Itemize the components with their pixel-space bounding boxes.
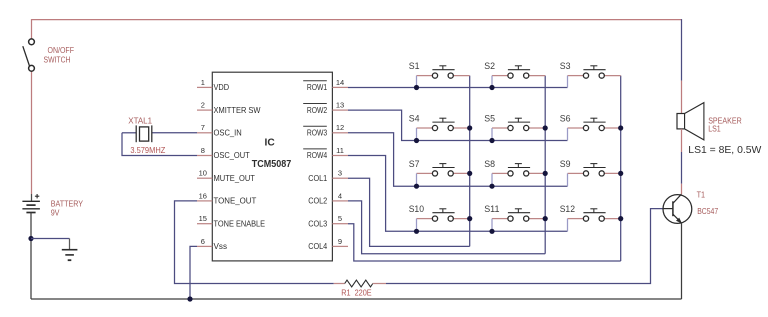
svg-text:S8: S8 [484, 159, 495, 169]
node S2 row junction [489, 85, 494, 90]
pin 15 TONE ENABLE [197, 214, 265, 228]
node S7 row junction [414, 184, 419, 189]
wire supply rail down to speaker [681, 19, 683, 113]
svg-text:S6: S6 [560, 113, 571, 123]
svg-text:8: 8 [201, 146, 205, 155]
svg-text:2: 2 [201, 101, 205, 110]
svg-text:6: 6 [201, 237, 205, 246]
svg-text:15: 15 [199, 214, 207, 223]
switch S4 [409, 113, 470, 140]
wire bottom ground rail [31, 298, 682, 300]
wire top supply rail [32, 19, 682, 21]
node battery/ground tee [28, 236, 33, 241]
svg-text:COL1: COL1 [308, 173, 327, 183]
resistor R1 220E [341, 280, 373, 298]
pin 10 MUTE_OUT [197, 169, 255, 183]
switch S12 [560, 204, 621, 231]
pin 3 COL1 [308, 169, 348, 183]
node S7 column junction [467, 171, 472, 176]
svg-text:TONE_OUT: TONE_OUT [214, 196, 257, 206]
node S8 row junction [489, 184, 494, 189]
svg-text:TONE ENABLE: TONE ENABLE [214, 218, 266, 228]
svg-text:LS1 = 8E, 0.5W: LS1 = 8E, 0.5W [688, 145, 761, 156]
svg-text:BATTERY: BATTERY [51, 200, 84, 209]
node S8 column junction [543, 171, 548, 176]
svg-text:ROW2: ROW2 [307, 105, 328, 115]
wire tee to ground [31, 239, 70, 250]
svg-text:SWITCH: SWITCH [44, 55, 71, 64]
svg-text:XMITTER SW: XMITTER SW [214, 105, 261, 115]
svg-text:16: 16 [199, 191, 207, 200]
svg-text:3.579MHZ: 3.579MHZ [130, 146, 165, 155]
svg-text:TCM5087: TCM5087 [252, 159, 292, 170]
svg-text:3: 3 [338, 169, 342, 178]
pin 13 ROW2 [303, 101, 348, 115]
svg-text:OSC_OUT: OSC_OUT [214, 150, 250, 160]
crystal XTAL1 3.579MHZ [122, 117, 197, 155]
svg-text:S9: S9 [560, 159, 571, 169]
node S6 column junction [618, 125, 623, 130]
pin 4 COL2 [308, 191, 348, 205]
svg-text:ROW1: ROW1 [307, 82, 328, 92]
wire COL3 keypad column vertical [620, 76, 622, 261]
svg-text:BC547: BC547 [697, 207, 718, 216]
svg-text:S3: S3 [560, 61, 571, 71]
IC U1 TCM5087 body [212, 72, 332, 261]
wire net ROW2 [348, 110, 568, 140]
pin 11 ROW4 [303, 146, 348, 160]
svg-text:ROW4: ROW4 [307, 150, 328, 160]
svg-text:IC: IC [265, 136, 276, 148]
svg-text:13: 13 [336, 101, 344, 110]
wire net ROW1 [348, 87, 568, 89]
switch S11 [484, 204, 545, 231]
svg-text:T1: T1 [697, 190, 706, 199]
svg-text:Vss: Vss [214, 241, 228, 251]
svg-text:XTAL1: XTAL1 [128, 117, 152, 126]
ground [62, 250, 78, 261]
node S5 column junction [543, 125, 548, 130]
node S10 column junction [467, 216, 472, 221]
switch S10 [409, 204, 470, 231]
svg-text:S10: S10 [409, 204, 424, 214]
switch S1 [409, 61, 470, 88]
svg-text:S1: S1 [409, 61, 420, 71]
node S10 row junction [414, 229, 419, 234]
svg-text:5: 5 [338, 214, 342, 223]
wire Vss pin6 to ground rail [190, 246, 197, 299]
svg-text:S7: S7 [409, 159, 420, 169]
wire net COL1 return [348, 178, 470, 246]
transistor T1 BC547 [663, 190, 719, 223]
pin 6 Vss [197, 237, 227, 251]
switch S7 [409, 159, 470, 186]
svg-text:R1 220E: R1 220E [341, 289, 372, 298]
switch S5 [484, 113, 545, 140]
node S1 row junction [414, 85, 419, 90]
svg-text:7: 7 [201, 123, 205, 132]
svg-text:9V: 9V [51, 208, 60, 217]
wire emitter to ground rail [681, 223, 683, 299]
svg-text:1: 1 [201, 78, 205, 87]
wire TONE_OUT pin16 down to R1 [175, 201, 345, 284]
node S11 row junction [489, 229, 494, 234]
svg-text:S12: S12 [560, 204, 575, 214]
node S9 column junction [618, 171, 623, 176]
switch ON/OFF SW1 [23, 39, 74, 71]
switch S8 [484, 159, 545, 186]
node S4 column junction [467, 125, 472, 130]
battery BT1 9V [22, 194, 83, 217]
pin 1 VDD [197, 78, 229, 92]
svg-text:S4: S4 [409, 113, 420, 123]
switch S6 [560, 113, 621, 140]
svg-text:4: 4 [338, 191, 342, 200]
wire net ROW3 [348, 133, 568, 186]
node S5 row junction [489, 138, 494, 143]
svg-text:ON/OFF: ON/OFF [48, 46, 75, 55]
svg-text:VDD: VDD [214, 82, 230, 92]
svg-text:MUTE_OUT: MUTE_OUT [214, 173, 255, 183]
wire net COL2 return [348, 201, 545, 254]
wire COL1 keypad column vertical [469, 76, 471, 247]
wire crystal loop to OSC_OUT pin 8 [122, 133, 197, 156]
svg-text:11: 11 [336, 146, 344, 155]
pin 7 OSC_IN [197, 123, 242, 137]
pin 2 XMITTER SW [197, 101, 261, 115]
svg-text:S2: S2 [484, 61, 495, 71]
svg-text:LS1: LS1 [708, 125, 721, 134]
wire battery positive to switch [31, 19, 33, 201]
switch S9 [560, 159, 621, 186]
wire speaker to collector [681, 129, 683, 194]
pin 9 COL4 [308, 237, 348, 251]
svg-text:9: 9 [338, 237, 342, 246]
wire net ROW4 [348, 156, 568, 232]
svg-text:COL3: COL3 [308, 218, 327, 228]
pin 14 ROW1 [303, 78, 348, 92]
pin 5 COL3 [308, 214, 348, 228]
wire R1 to transistor base [373, 209, 663, 284]
node Vss/ground rail junction [187, 296, 192, 301]
svg-text:COL2: COL2 [308, 196, 327, 206]
switch S3 [560, 61, 621, 88]
pin 8 OSC_OUT [197, 146, 250, 160]
svg-text:10: 10 [199, 169, 207, 178]
svg-text:COL4: COL4 [308, 241, 327, 251]
wire net COL3 return [348, 224, 621, 261]
pin 12 ROW3 [303, 123, 348, 137]
node S11 column junction [543, 216, 548, 221]
svg-text:14: 14 [336, 78, 344, 87]
svg-text:OSC_IN: OSC_IN [214, 128, 242, 138]
switch S2 [484, 61, 545, 88]
svg-text:S5: S5 [484, 113, 495, 123]
speaker LS1 [677, 103, 762, 157]
pin 16 TONE_OUT [197, 191, 256, 205]
wire COL2 keypad column vertical [544, 76, 546, 254]
wire battery negative down to bottom rail [30, 213, 32, 300]
svg-text:ROW3: ROW3 [307, 128, 328, 138]
node S12 column junction [618, 216, 623, 221]
node S4 row junction [414, 138, 419, 143]
svg-text:12: 12 [336, 123, 344, 132]
svg-text:S11: S11 [484, 204, 499, 214]
